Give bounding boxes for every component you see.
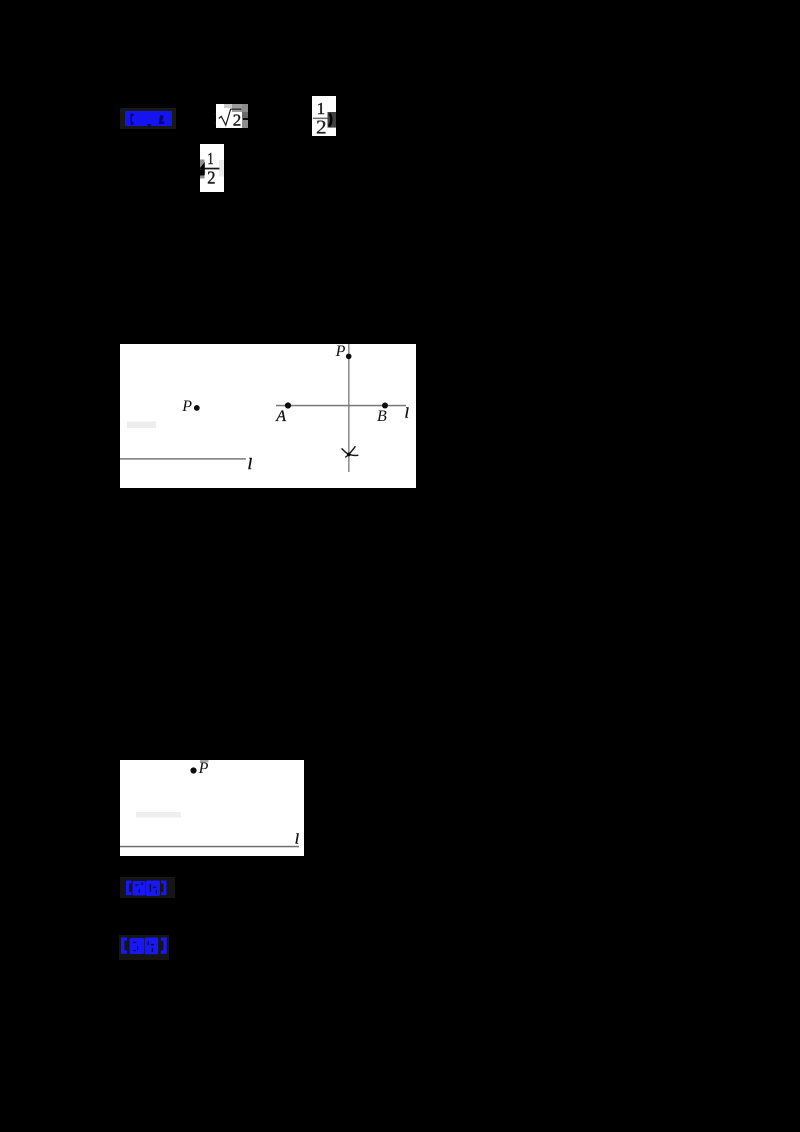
- svg-text:l: l: [295, 831, 299, 847]
- point P dot: [190, 767, 196, 773]
- svg-text:P: P: [335, 344, 346, 360]
- formula 1/2 (second line) white box: [200, 144, 224, 192]
- svg-text:2: 2: [232, 110, 241, 129]
- answer-label blue highlight: [125, 111, 172, 127]
- solution label halo: [119, 935, 169, 960]
- svg-text:2: 2: [207, 168, 215, 188]
- point A dot: [285, 402, 291, 408]
- right P dot: [346, 354, 352, 360]
- svg-text:B: B: [377, 408, 387, 425]
- artifact dark block with bracket: [328, 112, 337, 128]
- svg-text:1: 1: [317, 99, 326, 118]
- answer-label blue highlight halo: [120, 108, 176, 129]
- analysis label (blue): [126, 880, 173, 897]
- left point P dot: [194, 405, 200, 411]
- compass arc cross mark: [342, 448, 359, 455]
- svg-text:l: l: [405, 404, 409, 421]
- answer-label dark glyph marks: [125, 111, 172, 127]
- right horizontal line l: [276, 405, 406, 407]
- svg-text:l: l: [248, 456, 253, 473]
- point B dot: [382, 403, 388, 409]
- sqrt(2) glyph: [216, 104, 248, 129]
- figure box 1 (two construction diagrams): [120, 344, 416, 488]
- 1/2 second-line glyphs: [200, 144, 224, 192]
- sqrt(2) artifact grey blocks: [224, 104, 232, 108]
- grey artifact cap above P: [200, 760, 209, 762]
- faint erased-text smudge: [136, 812, 181, 818]
- analysis label halo: [120, 877, 175, 898]
- formula sqrt(2) white box: [216, 104, 248, 129]
- right vertical line: [348, 344, 349, 472]
- left-edge arrow artifact: [200, 160, 205, 179]
- svg-text:A: A: [275, 408, 286, 425]
- faint erased-text smudge: [127, 422, 156, 429]
- 1/2 top-right glyphs: [312, 96, 336, 136]
- svg-text:1: 1: [207, 149, 213, 168]
- left line l: [120, 458, 246, 459]
- figure box 2 (point P above line l): [120, 760, 304, 856]
- svg-text:P: P: [181, 398, 192, 415]
- formula 1/2 (top right) white box: [312, 96, 336, 136]
- line l: [120, 845, 299, 847]
- svg-text:P: P: [198, 760, 209, 777]
- svg-text:2: 2: [316, 116, 327, 136]
- solution label (blue): [121, 937, 168, 955]
